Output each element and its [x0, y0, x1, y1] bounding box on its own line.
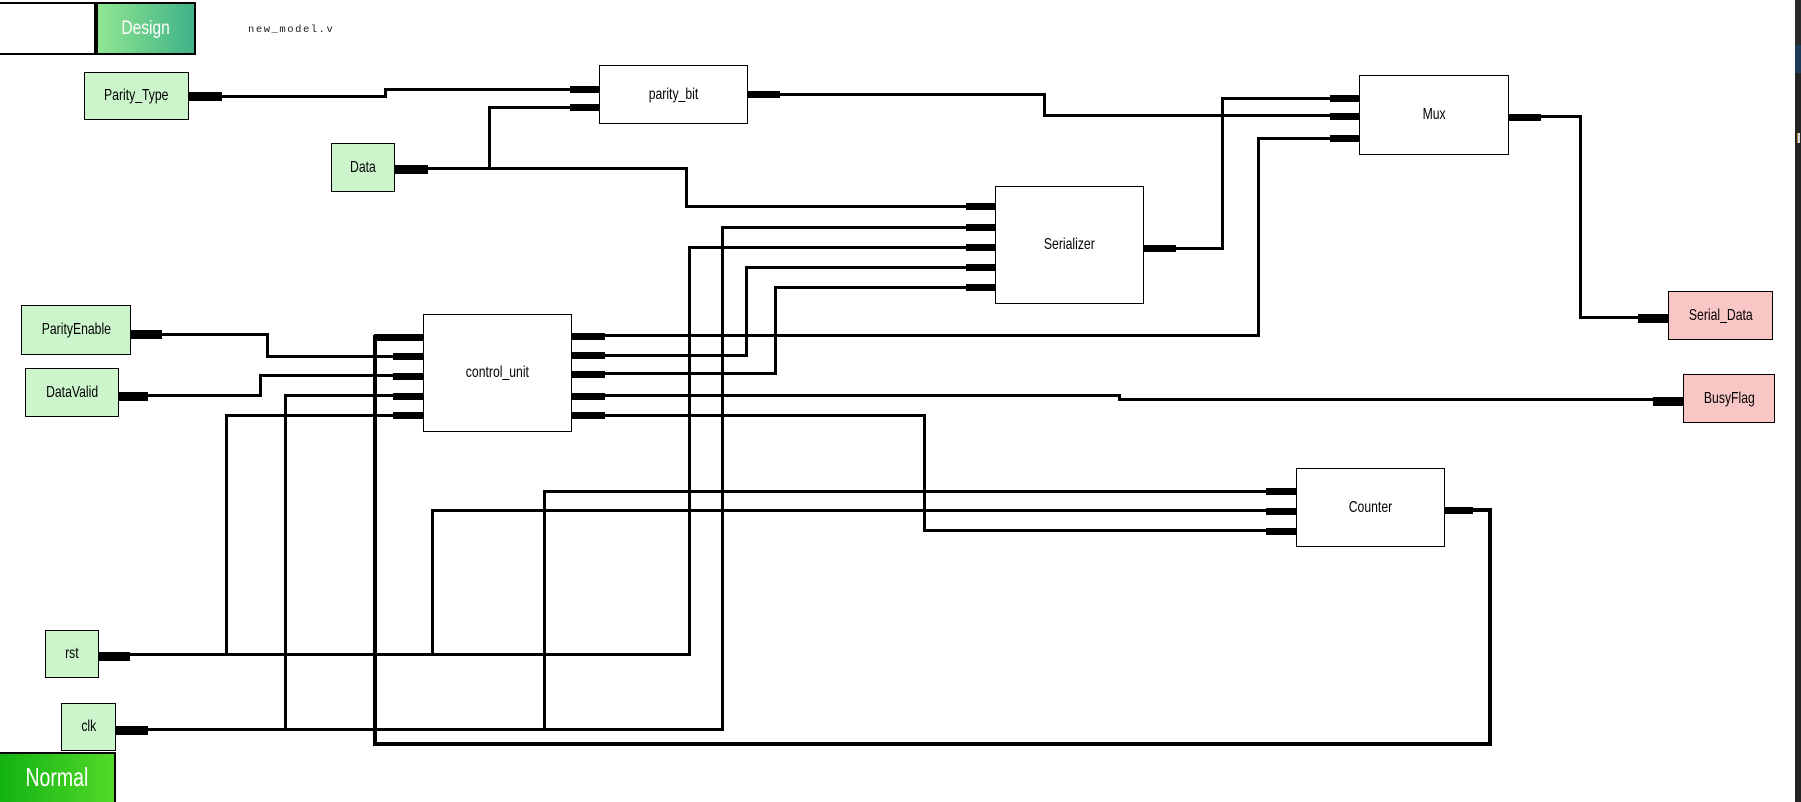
wire Parity_Type seg1 [189, 95, 386, 98]
pin DataValid out [119, 392, 148, 401]
input port DataValid [25, 368, 119, 417]
wire Counter out drop [1488, 508, 1492, 747]
module Serializer U_ser [995, 186, 1144, 304]
wire Mux out seg1 [1509, 115, 1582, 118]
module Counter U_cnt [1296, 468, 1445, 547]
pin BusyFlag in [1653, 397, 1683, 406]
label clk [61, 703, 116, 751]
pin Serial_Data in [1638, 314, 1668, 323]
wire Serializer to Mux riser [1221, 97, 1224, 250]
wire sel net riser [1257, 137, 1260, 337]
pin control_unit out5 [572, 412, 605, 419]
label Data [331, 143, 395, 192]
wire ParityEnable seg2 to control_unit in2 [266, 355, 424, 358]
wire Serial_Data seg to output port [1579, 316, 1669, 319]
label Mux [1359, 75, 1509, 155]
label Counter [1296, 468, 1445, 547]
wire busy net seg1 from control_unit out4 [572, 394, 1121, 397]
wire clk to Serializer in2 [721, 226, 995, 229]
pin Serializer out [1144, 245, 1176, 252]
pin Serializer in5 load [966, 284, 995, 291]
label Serializer [995, 186, 1144, 304]
wire clk riser to Counter [543, 490, 546, 731]
right strip top segment [1795, 0, 1801, 45]
wire rst riser to Counter [431, 509, 434, 657]
wire serial out of Serializer [1144, 247, 1224, 250]
wire clk trunk [148, 728, 724, 731]
wire count feedback bottom run [373, 742, 1492, 746]
status box Normal [0, 752, 116, 802]
wire Data seg1 [395, 167, 688, 170]
input port rst [45, 630, 99, 678]
pin rst out [99, 652, 130, 661]
pin Counter in2 rst [1266, 508, 1296, 515]
label Parity_Type [84, 72, 189, 120]
wire busy net seg2 to BusyFlag port [1118, 398, 1684, 401]
header Design tab button [96, 2, 196, 55]
wire clk to Counter in1 [543, 490, 1297, 493]
input port Data [331, 143, 395, 192]
header blank tab [0, 2, 96, 55]
label Serial_Data [1668, 291, 1773, 340]
wire Mux out drop to Serial_Data [1579, 115, 1582, 319]
wire ParityEnable seg1 [131, 333, 269, 336]
module parity_bit U_parity [599, 65, 748, 124]
pin control_unit out1 [572, 333, 605, 340]
right strip light mark [1797, 133, 1800, 143]
pin control_unit in5 [393, 412, 423, 419]
pin Data out [395, 165, 428, 174]
wire count feedback riser to control_unit in1 [373, 335, 378, 747]
wire sel net seg2 to Mux in3 [1257, 137, 1359, 140]
pin control_unit in1 count [374, 334, 423, 341]
pin control_unit in4 [393, 393, 423, 400]
label BusyFlag [1683, 374, 1775, 423]
wire Data drop [685, 167, 688, 208]
wire rst trunk [130, 653, 691, 656]
wire shift net riser [745, 266, 748, 357]
wire enable net from control_unit out5 [572, 414, 926, 417]
output port Serial_Data [1668, 291, 1773, 340]
input port Parity_Type [84, 72, 189, 120]
pin parity_bit out [748, 91, 780, 98]
wire shift net from control_unit out2 [572, 354, 748, 357]
pin parity_bit in1 [570, 86, 599, 93]
wire Data branch riser to parity_bit [488, 106, 491, 170]
pin Serializer in4 shift [966, 264, 995, 271]
output port BusyFlag [1683, 374, 1775, 423]
label ParityEnable [21, 305, 131, 355]
module Mux U_mux [1359, 75, 1509, 155]
filename label new_model.v [248, 24, 334, 36]
wire rst to control_unit in5 [225, 414, 423, 417]
wire sel net seg1 from control_unit out1 [572, 334, 1260, 337]
wire clk riser to Serializer [721, 226, 724, 731]
wire rst to Counter in2 [431, 509, 1296, 512]
pin Counter in1 clk [1266, 488, 1296, 495]
wire Parity_Type riser [384, 88, 387, 98]
wire DataValid seg1 [119, 394, 262, 397]
wire DataValid riser [259, 374, 262, 397]
wire rst to Serializer in3 [688, 246, 996, 249]
wire load net from control_unit out3 [572, 372, 777, 375]
wire rst riser to control_unit [225, 414, 228, 657]
wire Data seg2 to Serializer A pin [685, 205, 996, 208]
pin Mux out [1509, 114, 1542, 121]
pin ParityEnable out [131, 330, 162, 339]
label parity_bit [599, 65, 748, 124]
wire DataValid seg2 to control_unit in3 [259, 374, 424, 377]
pin Serializer in1 Data [966, 203, 995, 210]
wire parity net seg1 [748, 93, 1046, 96]
pin Mux in1 [1330, 95, 1359, 102]
wire rst riser to Serializer [688, 246, 691, 657]
wire parity net drop [1043, 93, 1046, 117]
input port ParityEnable [21, 305, 131, 355]
pin control_unit in3 [393, 373, 423, 380]
wire Serializer to Mux in1 [1221, 97, 1359, 100]
right strip blue segment [1795, 45, 1801, 73]
wire enable net to Counter in3 [923, 529, 1296, 532]
wire shift net to Serializer in4 [745, 266, 996, 269]
pin control_unit out3 [572, 371, 605, 378]
pin control_unit out4 [572, 393, 605, 400]
wire ParityEnable drop [266, 333, 269, 358]
label control_unit [423, 314, 572, 432]
pin clk out [116, 726, 148, 735]
wire load net riser [774, 286, 777, 376]
pin Mux in3 [1330, 135, 1359, 142]
wire parity net seg2 to Mux in2 [1043, 114, 1360, 117]
wire enable net drop [923, 414, 926, 532]
wire busy net jog [1118, 394, 1121, 401]
label DataValid [25, 368, 119, 417]
module control_unit U_cu [423, 314, 572, 432]
pin Mux in2 [1330, 113, 1359, 120]
pin Serializer in3 rst [966, 244, 995, 251]
wire load net to Serializer in5 [774, 286, 995, 289]
pin Counter out [1445, 507, 1473, 514]
input port clk [61, 703, 116, 751]
wire clk to control_unit in4 [284, 394, 424, 397]
label rst [45, 630, 99, 678]
wire Data branch to parity_bit pin2 [488, 106, 599, 109]
wire clk riser to control_unit [284, 394, 287, 731]
pin Parity_Type out [189, 92, 222, 101]
pin control_unit in2 [393, 353, 423, 360]
pin parity_bit in2 [570, 104, 599, 111]
right window edge strip [1795, 0, 1801, 802]
pin control_unit out2 [572, 352, 605, 359]
wire Parity_Type seg2 [385, 88, 600, 91]
pin Counter in3 en [1266, 528, 1296, 535]
pin Serializer in2 clk [966, 224, 995, 231]
wire Counter out seg1 [1445, 508, 1492, 512]
